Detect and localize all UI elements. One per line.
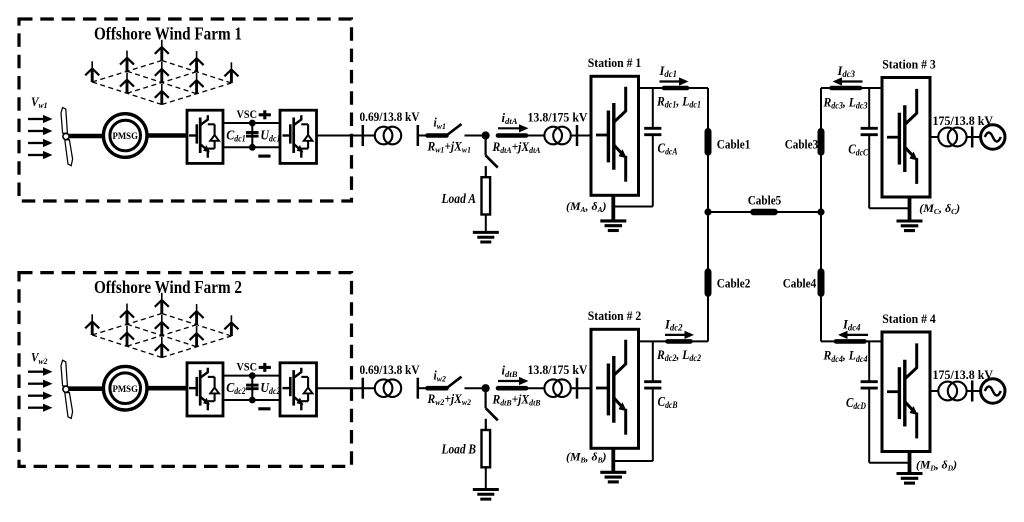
svg-text:13.8/175 kV: 13.8/175 kV — [528, 363, 588, 377]
Cable2 thick bar — [705, 272, 712, 294]
wire to line impedance — [418, 135, 426, 137]
station 4 IGBT — [887, 343, 918, 438]
svg-text:Station # 2: Station # 2 — [588, 308, 642, 323]
grid-side converter box farm 2 — [280, 363, 317, 416]
svg-text:Station # 4: Station # 4 — [882, 311, 936, 326]
capacitor C_dcB branch top wire — [652, 341, 654, 381]
load switch blade — [486, 155, 498, 167]
cable bus left vertical (Cable1/Cable2) — [707, 88, 709, 341]
load resistor Load A — [482, 177, 491, 214]
wire converter to farm boundary — [317, 135, 353, 137]
DC smoothing impedance R_dc3 L_dc3 bar — [832, 86, 861, 91]
bus tick AC grid — [971, 127, 974, 148]
load branch wire from junction — [485, 388, 487, 408]
transformer 13.8/175 kV circle 1 — [544, 379, 562, 397]
wire station 4 top input — [821, 340, 882, 342]
wire impedance to transformer — [526, 135, 544, 137]
station 2 bottom wire — [613, 460, 653, 462]
transformer 0.69/13.8 kV circle 2 — [384, 379, 402, 397]
generator PMSG outer circle — [103, 114, 147, 158]
ground symbol Load A — [473, 231, 499, 234]
distribution impedance thick bar — [498, 133, 526, 138]
grid-side converter IGBT+diode — [283, 115, 313, 158]
wire to load resistor — [485, 419, 487, 430]
wire switch to junction — [465, 135, 486, 137]
wire switch to junction — [465, 387, 486, 389]
station 1 bottom wire — [613, 206, 653, 208]
wire station 1 top output — [639, 87, 709, 89]
transformer 0.69/13.8 kV circle 1 — [375, 379, 393, 397]
transformer 13.8/175 kV circle 1 — [544, 127, 562, 145]
capacitor C_dcB branch bottom wire — [652, 388, 654, 461]
svg-text:PMSG: PMSG — [112, 132, 138, 142]
station 4 ground symbol — [897, 472, 923, 475]
bus tick right of 13.8/175 kV transformer — [576, 378, 579, 399]
minus sign — [258, 155, 270, 158]
svg-text:Offshore Wind Farm 1: Offshore Wind Farm 1 — [94, 24, 242, 44]
capacitor C_dcA plates — [644, 127, 661, 130]
DC smoothing impedance R_dc2 L_dc2 bar — [668, 339, 691, 344]
wire to load resistor — [485, 166, 487, 177]
capacitor C_dcC plates — [861, 127, 878, 130]
capacitor C_dcD branch bottom wire — [868, 388, 870, 463]
capacitor C_dcC branch top wire — [868, 88, 870, 128]
junction node dot right (Cable5) — [817, 208, 824, 215]
wind turbine array (9 small turbines) — [85, 40, 238, 105]
junction node dot — [482, 384, 490, 392]
station 2 bottom stem — [611, 448, 615, 472]
junction node dot left (Cable5) — [704, 208, 711, 215]
svg-text:175/13.8 kV: 175/13.8 kV — [933, 114, 994, 128]
DC smoothing impedance R_dc4 L_dc4 bar — [836, 339, 865, 344]
node dot bottom rail — [249, 397, 256, 404]
current arrow I_dc1 — [660, 80, 681, 82]
distribution impedance thick bar — [498, 386, 526, 391]
svg-text:Cable2: Cable2 — [717, 276, 751, 290]
DC smoothing impedance R_dc1 L_dc1 bar — [664, 86, 687, 91]
Cable1 thick bar — [705, 132, 712, 153]
bus tick AC grid — [971, 381, 974, 402]
bus tick right of transformer — [417, 125, 420, 146]
current arrow I_dc4 — [847, 334, 869, 336]
Cable5 thick bar — [754, 209, 775, 216]
load switch blade — [486, 408, 498, 420]
grid-side converter box farm 1 — [280, 110, 317, 163]
DC link capacitor stem — [251, 123, 253, 147]
minus sign — [258, 407, 270, 410]
capacitor C_dcC branch bottom wire — [868, 135, 870, 209]
transformer 175/13.8 kV circle 1 — [938, 128, 957, 147]
svg-text:Station # 3: Station # 3 — [882, 57, 936, 72]
wire resistor to ground — [485, 467, 487, 489]
svg-text:175/13.8 kV: 175/13.8 kV — [933, 368, 994, 382]
bus tick right of 13.8/175 kV transformer — [576, 125, 579, 146]
DC link top rail — [223, 375, 280, 377]
shaft PMSG to converter wire — [146, 133, 187, 138]
svg-text:0.69/13.8 kV: 0.69/13.8 kV — [360, 110, 420, 124]
node dot bottom rail — [249, 144, 256, 151]
wire converter to farm boundary — [317, 387, 353, 389]
junction node dot — [482, 131, 490, 139]
svg-text:Cable5: Cable5 — [748, 193, 782, 207]
wire farm edge to transformer — [352, 387, 376, 389]
node dot top rail — [249, 120, 256, 127]
transformer 175/13.8 kV circle 1 — [938, 382, 957, 401]
turbine shaft wire — [69, 386, 105, 391]
svg-text:13.8/175 kV: 13.8/175 kV — [528, 110, 588, 124]
wire transformer to grid tick — [967, 390, 981, 392]
station 4 converter box — [882, 332, 930, 452]
station 2 converter box — [591, 329, 639, 448]
turbine shaft wire — [69, 134, 105, 139]
transformer 175/13.8 kV circle 2 — [948, 382, 967, 401]
wire station 3 top input — [821, 87, 882, 89]
generator PMSG inner circle — [110, 120, 141, 151]
wire transformer to station — [571, 135, 591, 137]
wind turbine array (9 small turbines) — [85, 293, 238, 358]
DC link capacitor C_dc1 plates — [246, 131, 258, 134]
plus sign — [259, 113, 271, 116]
bus tick right of transformer — [417, 378, 420, 399]
wire transformer to grid tick — [967, 136, 981, 138]
station 3 IGBT — [887, 89, 918, 184]
current arrow I_dc3 — [841, 80, 863, 82]
ground symbol Load B — [473, 488, 499, 491]
svg-text:Cable3: Cable3 — [785, 138, 819, 152]
bus tick left of transformer T11 — [362, 125, 365, 146]
station 1 ground symbol — [600, 219, 626, 222]
wind turbine array grid (dashed lattice) — [92, 61, 231, 105]
wire station 4 AC output — [930, 390, 939, 392]
station 4 bottom stem — [908, 452, 912, 474]
capacitor C_dcD plates — [861, 380, 878, 383]
wire to line impedance — [418, 387, 426, 389]
wire station 2 top output — [639, 340, 709, 342]
DC link bottom rail — [223, 146, 280, 148]
station 2 IGBT — [596, 340, 627, 435]
plus sign — [259, 366, 271, 369]
svg-text:Cable1: Cable1 — [717, 138, 751, 152]
transformer 175/13.8 kV circle 2 — [948, 128, 967, 147]
station 3 bottom stem — [908, 197, 912, 221]
svg-text:0.69/13.8 kV: 0.69/13.8 kV — [360, 363, 420, 377]
current arrow i_dtB — [498, 380, 520, 382]
wire transformer to station — [571, 387, 591, 389]
current arrow I_dc2 — [665, 334, 686, 336]
Cable4 thick bar — [818, 272, 825, 294]
station 1 IGBT — [596, 87, 627, 182]
capacitor C_dcA branch top wire — [652, 88, 654, 128]
grid-side converter IGBT+diode — [283, 368, 313, 411]
svg-text:VSC: VSC — [237, 359, 258, 373]
DC link capacitor stem — [251, 376, 253, 400]
wind turbine rotor (2-blade) farm 1 — [61, 108, 67, 134]
offshore wind farm 2 dashed boundary box — [19, 273, 352, 467]
wind speed arrows — [28, 115, 53, 159]
wind turbine array grid (dashed lattice) — [92, 314, 231, 358]
bus tick left of transformer T21 — [362, 378, 365, 399]
DC link top rail — [223, 122, 280, 124]
transformer 13.8/175 kV circle 2 — [553, 127, 571, 145]
Cable3 thick bar — [818, 132, 825, 153]
generator PMSG inner circle — [110, 373, 141, 404]
wind turbine rotor (2-blade) farm 2 — [61, 360, 67, 386]
station 3 converter box — [882, 78, 930, 198]
wire station 3 AC output — [930, 136, 939, 138]
current arrow i_dtA — [498, 127, 520, 129]
capacitor C_dcA branch bottom wire — [652, 135, 654, 207]
svg-text:Station # 1: Station # 1 — [588, 55, 642, 70]
capacitor C_dcD branch top wire — [868, 341, 870, 381]
svg-text:Cable4: Cable4 — [783, 276, 817, 290]
offshore wind farm 1 dashed boundary box — [19, 19, 352, 201]
svg-text:Load A: Load A — [441, 191, 477, 206]
machine-side converter IGBT+diode — [189, 368, 219, 411]
line impedance R_w2+jX_w2 thick bar — [428, 386, 447, 391]
wire farm edge to transformer — [352, 135, 376, 137]
station 3 ground symbol — [897, 219, 923, 222]
wire impedance to transformer — [526, 387, 544, 389]
load resistor Load B — [482, 430, 491, 467]
station 1 bottom stem — [611, 195, 615, 221]
transformer 0.69/13.8 kV circle 1 — [375, 127, 393, 145]
transformer 0.69/13.8 kV circle 2 — [384, 127, 402, 145]
DC link bottom rail — [223, 399, 280, 401]
station 2 ground symbol — [600, 471, 626, 474]
wind speed arrows — [28, 368, 53, 412]
station 4 bottom wire — [869, 462, 909, 464]
AC grid source — [981, 379, 1005, 403]
cable bus right vertical (Cable3/Cable4) — [820, 88, 822, 341]
capacitor C_dcB plates — [644, 380, 661, 383]
generator PMSG outer circle — [103, 366, 147, 410]
DC link capacitor C_dc2 plates — [246, 384, 258, 387]
transformer 13.8/175 kV circle 2 — [553, 379, 571, 397]
Cable5 horizontal wire — [708, 211, 821, 213]
svg-text:Load B: Load B — [441, 442, 477, 457]
node dot top rail — [249, 372, 256, 379]
machine-side converter box farm 2 — [187, 363, 223, 416]
svg-text:Offshore Wind Farm 2: Offshore Wind Farm 2 — [94, 277, 242, 297]
shaft PMSG to converter wire — [146, 386, 187, 391]
breaker switch blade i_w1 — [447, 124, 461, 135]
station 1 converter box — [591, 76, 639, 195]
breaker switch blade i_w2 — [447, 377, 461, 388]
load branch wire from junction — [485, 136, 487, 156]
machine-side converter IGBT+diode — [189, 115, 219, 158]
svg-text:PMSG: PMSG — [112, 385, 138, 395]
wire resistor to ground — [485, 215, 487, 233]
AC grid source — [981, 125, 1005, 149]
svg-text:VSC: VSC — [237, 107, 258, 121]
machine-side converter box farm 1 — [187, 110, 223, 163]
station 3 bottom wire — [869, 207, 909, 209]
line impedance R_w1+jX_w1 thick bar — [428, 133, 447, 138]
